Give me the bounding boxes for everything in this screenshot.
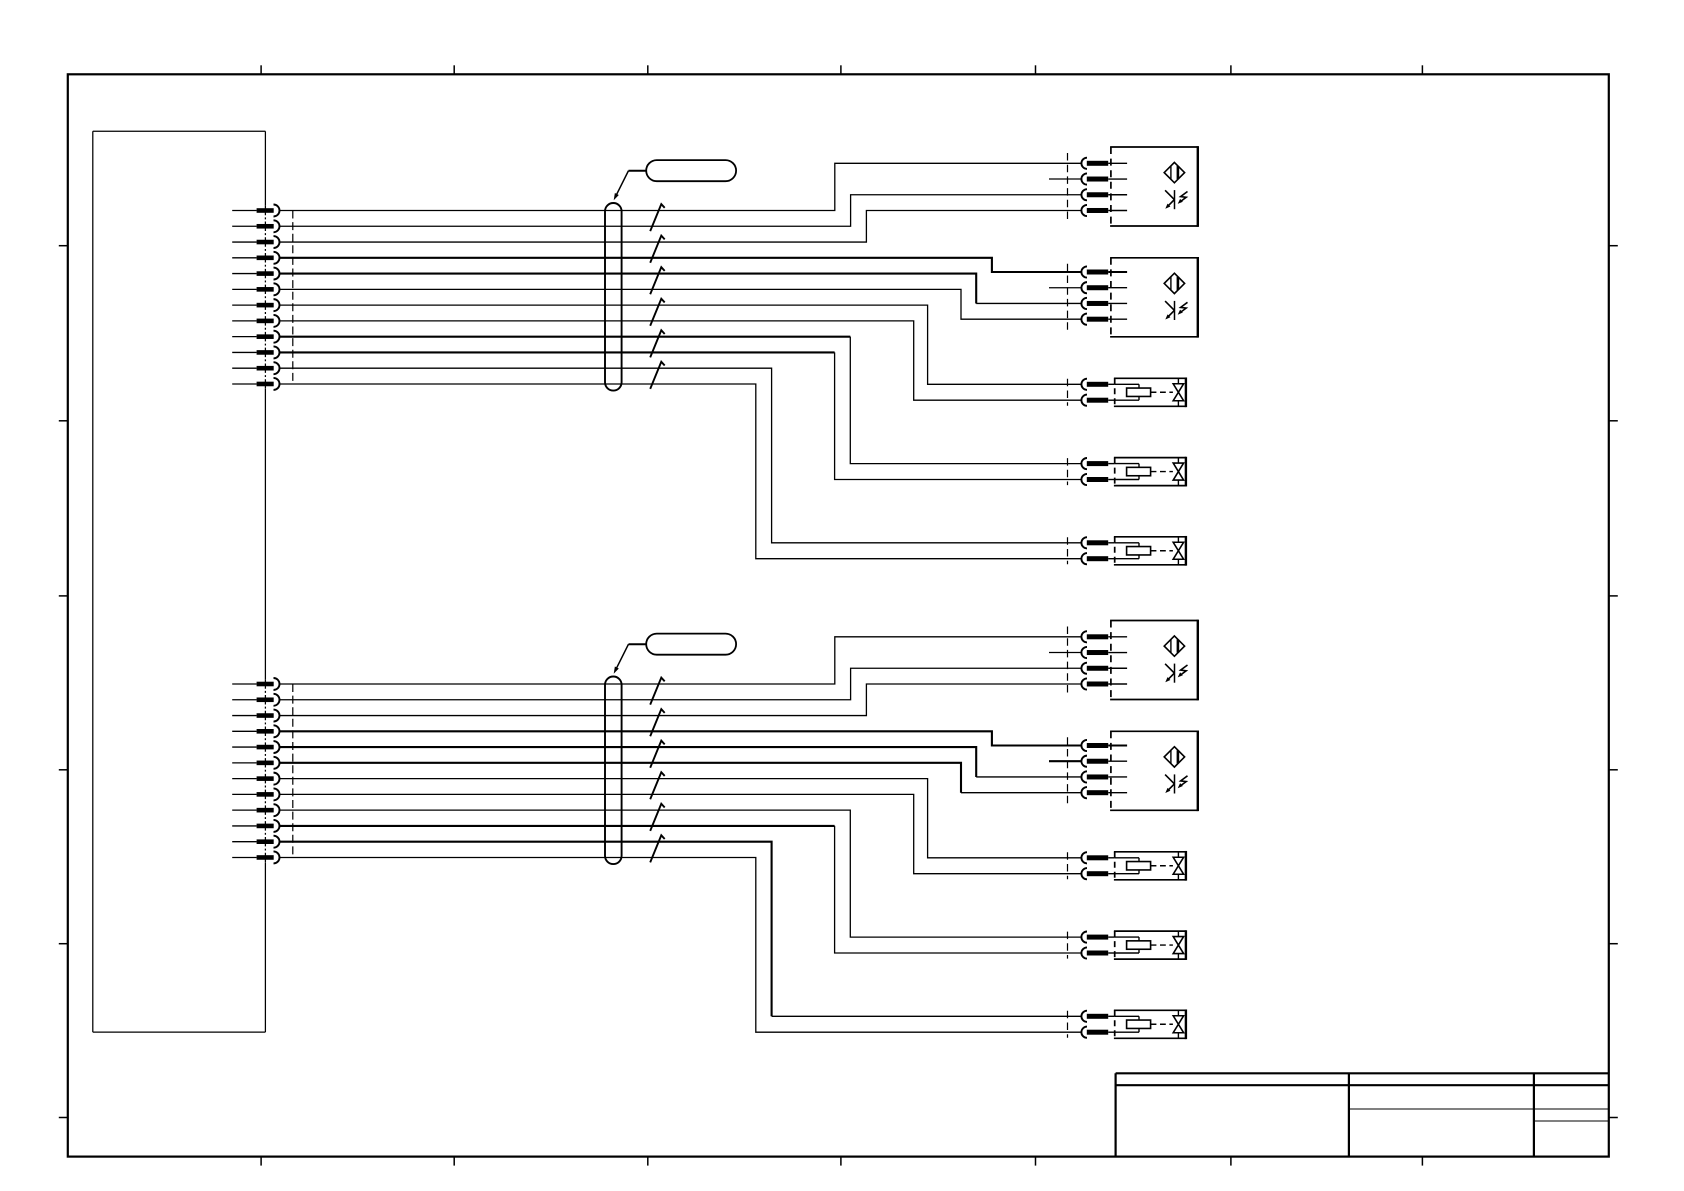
sensor B3 pin 1 (1081, 631, 1127, 642)
connector XA pin 8 (terminal with socket arc) (232, 315, 279, 327)
cable WB conductor slash pair 5 (650, 804, 665, 831)
connector XB pin 2 (terminal with socket arc) (232, 694, 279, 706)
connector XB pin 3 (terminal with socket arc) (232, 710, 279, 722)
cable WA conductor slash pair 3 (650, 267, 665, 294)
sensor B4 pin 1 (1081, 740, 1127, 751)
valve Y2 dashed lead line (1067, 458, 1069, 485)
sensor B4 pin 2 stub wire (1049, 760, 1081, 762)
wire XB.12 routed to field device (280, 857, 1082, 1032)
wire XA.11 routed to field device (280, 368, 1082, 543)
cable WA conductor slash pair 2 (650, 236, 665, 263)
title block column divider 1 (1348, 1073, 1350, 1156)
wire XA.2 routed to field device (280, 195, 1082, 227)
valve Y5 actuation dashed link (1151, 944, 1173, 946)
valve Y1 actuation dashed link (1151, 391, 1173, 393)
valve Y6 pin 1 (1081, 1011, 1114, 1022)
cable WA grouping oval (605, 203, 622, 391)
valve Y5 dashed lead line (1067, 932, 1069, 959)
valve Y2 valve bowtie symbol (1173, 458, 1183, 486)
valve Y2 box outline (1114, 457, 1186, 487)
connector XA pin 2 (terminal with socket arc) (232, 220, 279, 232)
valve Y4 solenoid coil symbol (1115, 858, 1151, 874)
valve Y6 pin 2 (1081, 1027, 1114, 1038)
sensor B4 pin 2 (1081, 756, 1127, 767)
cable WB leader arrow (614, 644, 647, 674)
cable WA conductor slash pair 1 (650, 204, 665, 231)
valve Y4 dashed lead line (1067, 852, 1069, 879)
sensor B3 optical lens diamond symbol (1164, 636, 1184, 656)
wire XA.9 routed to field device (280, 337, 1082, 464)
connector XA pin 7 (terminal with socket arc) (232, 299, 279, 311)
wire XB.7 routed to field device (280, 779, 1082, 858)
sensor B4 pin 3 (1081, 771, 1127, 782)
connector XA pin 5 (terminal with socket arc) (232, 268, 279, 280)
valve Y3 actuation dashed link (1151, 550, 1173, 552)
wire XA.8 routed to field device (280, 321, 1082, 400)
valve Y1 pin 1 (1081, 379, 1114, 390)
border ticks top edge (261, 65, 1422, 74)
border ticks left edge (59, 246, 68, 1118)
connector XB pin 5 (terminal with socket arc) (232, 741, 279, 753)
connector XB pin 7 (terminal with socket arc) (232, 773, 279, 785)
sensor B1 dashed lead line (1067, 153, 1069, 220)
valve Y6 solenoid coil symbol (1115, 1016, 1151, 1032)
wire XA.12 routed to field device (280, 384, 1082, 559)
sensor B2 optical lens diamond symbol (1164, 273, 1184, 293)
wire XB.10 routed to field device (280, 826, 1082, 953)
cable WB conductor slash pair 4 (650, 772, 665, 799)
sensor B2 dashed lead line (1067, 264, 1069, 331)
sensor B2 pin 2 stub wire (1049, 287, 1081, 289)
valve Y2 pin 2 (1081, 474, 1114, 485)
valve Y6 box outline (1114, 1009, 1186, 1039)
valve Y2 pin 1 (1081, 458, 1114, 469)
connector XB dashed boundary line (292, 684, 294, 857)
sensor B3 pin 4 (1081, 678, 1127, 689)
valve Y5 box outline (1114, 930, 1186, 960)
controller connector edge (bus line, dash-dot at pin groups) (264, 131, 266, 1032)
connector XB pin 8 (terminal with socket arc) (232, 788, 279, 800)
valve Y1 pin 2 (1081, 395, 1114, 406)
sensor B1 box outline (1110, 146, 1198, 227)
cable WB conductor slash pair 6 (650, 835, 665, 862)
connector XB pin 9 (terminal with socket arc) (232, 804, 279, 816)
cable WA conductor slash pair 5 (650, 330, 665, 357)
wire XB.1 routed to field device (280, 637, 1082, 684)
wire XB.3 routed to field device (280, 684, 1082, 716)
valve Y1 solenoid coil symbol (1115, 384, 1151, 400)
valve Y2 solenoid coil symbol (1115, 464, 1151, 480)
connector XA pin 3 (terminal with socket arc) (232, 236, 279, 248)
sensor B1 pin 1 (1081, 158, 1127, 169)
valve Y1 box outline (1114, 377, 1186, 407)
valve Y3 box outline (1114, 536, 1186, 566)
valve Y3 valve bowtie symbol (1173, 537, 1183, 565)
connector XB pin 6 (terminal with socket arc) (232, 757, 279, 769)
sensor B1 optical lens diamond symbol (1164, 162, 1184, 182)
valve Y4 valve bowtie symbol (1173, 852, 1183, 880)
title block right column row line (1534, 1120, 1609, 1122)
valve Y2 actuation dashed link (1151, 471, 1173, 473)
sensor B4 optical lens diamond symbol (1164, 747, 1184, 767)
valve Y4 pin 1 (1081, 852, 1114, 863)
sensor B4 light receiver arrow symbol (1165, 774, 1187, 793)
wire XB.6 routed to field device (280, 763, 1082, 793)
connector XA pin 1 (terminal with socket arc) (232, 205, 279, 217)
wire XB.9 routed to field device (280, 810, 1082, 937)
border ticks bottom edge (261, 1157, 1422, 1166)
sensor B3 light receiver arrow symbol (1165, 664, 1187, 683)
connector XB pin 11 (terminal with socket arc) (232, 836, 279, 848)
valve Y5 pin 1 (1081, 932, 1114, 943)
wire XB.2 routed to field device (280, 668, 1082, 700)
connector XA pin 10 (terminal with socket arc) (232, 346, 279, 358)
border ticks right edge (1609, 246, 1618, 1118)
sensor B1 pin 3 (1081, 189, 1127, 200)
connector XA pin 9 (terminal with socket arc) (232, 331, 279, 343)
sensor B1 pin 4 (1081, 205, 1127, 216)
valve Y6 actuation dashed link (1151, 1023, 1173, 1025)
sensor B2 light receiver arrow symbol (1165, 301, 1187, 320)
valve Y5 pin 2 (1081, 947, 1114, 958)
controller box left edge (92, 131, 94, 1032)
wire XA.3 routed to field device (280, 210, 1082, 242)
cable WB conductor slash pair 1 (650, 678, 665, 705)
cable WB conductor slash pair 2 (650, 709, 665, 736)
connector XB pin 12 (terminal with socket arc) (232, 851, 279, 863)
sensor B3 pin 2 (1081, 647, 1127, 658)
connector XA pin 12 (terminal with socket arc) (232, 378, 279, 390)
sensor B2 pin 4 (1081, 314, 1127, 325)
wire XA.10 routed to field device (280, 352, 1082, 479)
sensor B2 box outline (1110, 257, 1198, 338)
wire XB.5 routed to field device (280, 747, 1082, 777)
cable WA conductor slash pair 6 (650, 362, 665, 389)
cable WA leader arrow (614, 171, 647, 201)
valve Y3 solenoid coil symbol (1115, 543, 1151, 559)
sensor B2 pin 1 (1081, 266, 1127, 277)
valve Y5 solenoid coil symbol (1115, 937, 1151, 953)
sensor B3 box outline (1110, 620, 1198, 701)
connector XA pin 4 (terminal with socket arc) (232, 252, 279, 264)
wire XA.5 routed to field device (280, 274, 1082, 304)
valve Y3 pin 1 (1081, 537, 1114, 548)
connector XA pin 11 (terminal with socket arc) (232, 362, 279, 374)
valve Y6 valve bowtie symbol (1173, 1010, 1183, 1038)
controller box bottom edge (93, 1031, 266, 1033)
cable WB label capsule (646, 634, 736, 655)
cable WB conductor slash pair 3 (650, 741, 665, 768)
connector XB pin 1 (terminal with socket arc) (232, 678, 279, 690)
sensor B2 pin 2 (1081, 282, 1127, 293)
valve Y5 valve bowtie symbol (1173, 931, 1183, 959)
valve Y3 dashed lead line (1067, 537, 1069, 564)
wire XB.8 routed to field device (280, 794, 1082, 873)
valve Y4 box outline (1114, 851, 1186, 881)
valve Y1 dashed lead line (1067, 379, 1069, 406)
wire XA.6 routed to field device (280, 289, 1082, 319)
sensor B4 pin 4 (1081, 787, 1127, 798)
title block middle row line (1349, 1108, 1609, 1110)
wire XA.4 routed to field device (280, 258, 1082, 272)
title block header divider (1116, 1084, 1609, 1086)
valve Y1 valve bowtie symbol (1173, 378, 1183, 406)
sensor B1 light receiver arrow symbol (1165, 190, 1187, 209)
wire XB.4 routed to field device (280, 731, 1082, 745)
cable WA conductor slash pair 4 (650, 299, 665, 326)
valve Y4 pin 2 (1081, 868, 1114, 879)
sensor B1 pin 2 stub wire (1049, 178, 1081, 180)
title block outer frame (1116, 1073, 1609, 1156)
wire XA.7 routed to field device (280, 305, 1082, 384)
sensor B3 pin 2 stub wire (1049, 652, 1081, 654)
sensor B3 pin 3 (1081, 663, 1127, 674)
valve Y3 pin 2 (1081, 553, 1114, 564)
sensor B3 dashed lead line (1067, 627, 1069, 694)
wire XA.1 routed to field device (280, 163, 1082, 210)
connector XA pin 6 (terminal with socket arc) (232, 283, 279, 295)
valve Y4 actuation dashed link (1151, 865, 1173, 867)
cable WB grouping oval (605, 677, 622, 865)
connector XA dashed boundary line (292, 211, 294, 384)
wire XB.11 routed to field device (280, 842, 1082, 1017)
sensor B4 box outline (1110, 730, 1198, 811)
connector XB pin 4 (terminal with socket arc) (232, 725, 279, 737)
valve Y6 dashed lead line (1067, 1011, 1069, 1038)
connector XB pin 10 (terminal with socket arc) (232, 820, 279, 832)
sensor B1 pin 2 (1081, 173, 1127, 184)
sensor B2 pin 3 (1081, 298, 1127, 309)
title block column divider 2 (1533, 1073, 1535, 1156)
controller box top edge (93, 130, 266, 132)
cable WA label capsule (646, 160, 736, 181)
sensor B4 dashed lead line (1067, 737, 1069, 804)
